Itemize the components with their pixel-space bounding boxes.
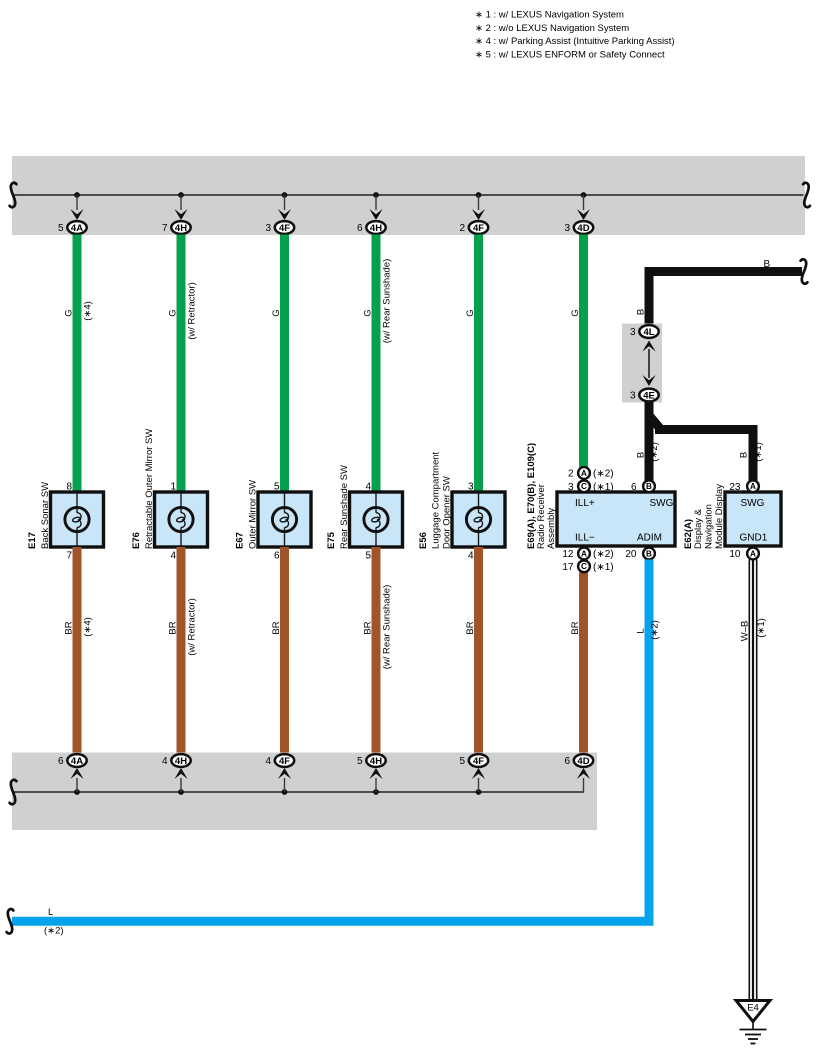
svg-text:4E: 4E [643,390,655,401]
switch internal wire E17 [76,492,78,547]
svg-text:(∗2): (∗2) [593,469,614,480]
wire stub from bus to connector 4H [375,195,377,210]
svg-text:3: 3 [630,391,636,402]
wire stub to connector 4H [375,778,377,792]
arrow into connector 4A [70,209,83,220]
svg-text:23: 23 [729,482,741,493]
arrow into connector 4A [70,768,83,779]
svg-text:5: 5 [274,482,280,493]
svg-text:BR: BR [63,621,74,634]
svg-text:C: C [581,562,587,571]
lamp symbol E67 [272,507,296,531]
svg-text:4: 4 [170,551,176,562]
connector 4E pin 3 [630,389,659,402]
switch internal wire E67 [284,492,286,547]
bottom bus riser to connector 4D [583,778,585,793]
arrow down into 4E [642,375,655,386]
svg-text:4: 4 [265,756,271,767]
svg-text:G: G [167,309,178,316]
svg-text:W–B: W–B [740,621,751,642]
svg-text:∗ 4 : w/ Parking Assist (Intui: ∗ 4 : w/ Parking Assist (Intuitive Parki… [475,36,675,47]
wire G (green) col 1 [73,235,82,493]
svg-text:8: 8 [66,482,72,493]
wire stub to connector 4A [76,778,78,792]
svg-text:BR: BR [570,621,581,634]
svg-text:7: 7 [66,551,72,562]
switch body E17 [51,492,104,547]
wire B (black) top horizontal [649,272,802,326]
svg-text:ILL−: ILL− [575,532,595,543]
svg-text:3: 3 [568,482,574,493]
svg-text:Outer Mirror SW: Outer Mirror SW [247,480,258,549]
display module body E62 [725,492,781,546]
wire B branch to display [650,417,753,482]
svg-text:BR: BR [271,621,282,634]
svg-text:B: B [764,259,771,270]
svg-text:E67: E67 [235,532,246,549]
wire stub from bus to connector 4D [583,195,585,210]
top bus break left [10,183,17,207]
arrow into connector 4H [369,209,382,220]
arrow into connector 4F [278,209,291,220]
svg-text:4F: 4F [473,756,484,767]
svg-text:6: 6 [357,223,363,234]
svg-text:(∗1): (∗1) [756,618,767,638]
lamp filament E67 [280,513,289,528]
top bus junction dot col 6 [581,192,587,198]
top bus break right [803,183,810,207]
svg-text:G: G [63,309,74,316]
lamp symbol E75 [364,507,388,531]
lamp filament E76 [176,513,185,528]
svg-text:B: B [636,452,647,458]
svg-text:4H: 4H [175,223,187,234]
pin 12 A (*2) of radio ILL- [562,548,613,561]
lamp filament E56 [474,513,483,528]
svg-text:6: 6 [564,756,570,767]
svg-text:4: 4 [162,756,168,767]
pin 10 A of display GND1 [729,548,759,561]
connector 4F pin 3 (top) [265,221,294,234]
svg-text:(∗2): (∗2) [650,620,661,640]
svg-text:(∗1): (∗1) [593,482,614,493]
svg-text:4H: 4H [175,756,187,767]
wire stub to connector 4F [284,778,286,792]
svg-text:E76: E76 [131,532,142,549]
connector 4A pin 6 (bottom) [58,754,87,767]
svg-text:Retractable Outer Mirror SW: Retractable Outer Mirror SW [144,429,155,549]
svg-text:E56: E56 [418,532,429,549]
svg-text:(∗1): (∗1) [753,442,764,462]
connector 4H pin 5 (bottom) [357,754,386,767]
bottom junction bus band [12,753,597,831]
wire G (green) col 4 [372,235,381,493]
wire G (green) col 2 [177,235,186,493]
bottom bus junction dot col 2 [178,789,184,795]
wire L (blue) from ADIM to left edge [12,560,649,922]
svg-text:5: 5 [459,756,465,767]
wire stub from bus to connector 4A [76,195,78,210]
lamp symbol E76 [169,507,193,531]
switch body E75 [350,492,403,547]
arrow into connector 4F [278,768,291,779]
svg-text:3: 3 [630,327,636,338]
pin 6 B of radio SWG [631,480,655,493]
connector 4D pin 3 (top) [564,221,593,234]
joint wire 4L-4E [648,349,650,378]
svg-text:(∗1): (∗1) [593,562,614,573]
wire stub from bus to connector 4F [284,195,286,210]
svg-text:20: 20 [625,549,637,560]
arrow into connector 4F [472,768,485,779]
svg-text:Rear Sunshade SW: Rear Sunshade SW [339,465,350,549]
svg-text:B: B [646,482,652,491]
connector 4D pin 6 (bottom) [564,754,593,767]
wire BR (brown) col 6 [579,573,588,755]
svg-text:4H: 4H [370,756,382,767]
connector 4H pin 4 (bottom) [162,754,191,767]
svg-text:5: 5 [58,223,64,234]
svg-text:Luggage Compartment: Luggage Compartment [431,451,442,549]
svg-text:6: 6 [58,756,64,767]
svg-text:(∗2): (∗2) [593,549,614,560]
svg-text:4: 4 [468,551,474,562]
svg-text:Assembly: Assembly [546,508,557,549]
svg-text:(∗2): (∗2) [44,926,64,937]
svg-text:(w/ Rear Sunshade): (w/ Rear Sunshade) [382,585,393,669]
top bus junction dot col 5 [476,192,482,198]
svg-text:3: 3 [265,223,271,234]
wire G (green) col 6 [579,235,588,468]
ground point E4 [736,1001,770,1022]
switch body E67 [258,492,311,547]
svg-text:B: B [636,309,647,315]
wire BR (brown) col 3 [280,547,289,754]
arrow into connector 4H [174,768,187,779]
svg-text:E17: E17 [27,532,38,549]
svg-text:(∗2): (∗2) [649,442,660,462]
wire stub to connector 4H [180,778,182,792]
pin 23 A of display SWG [729,480,759,493]
lamp symbol E56 [466,507,490,531]
svg-text:ILL+: ILL+ [575,498,595,509]
svg-text:B: B [739,452,750,458]
svg-text:C: C [581,482,587,491]
wire BR (brown) col 5 [474,547,483,754]
svg-text:6: 6 [274,551,280,562]
lamp symbol E17 [65,507,89,531]
arrow into connector 4F [472,209,485,220]
pin 17 C (*1) of radio ILL- [562,560,613,573]
bottom bus junction dot col 4 [373,789,379,795]
pin 3 C (*1) of radio ILL+ [568,480,614,493]
svg-text:∗ 5 : w/ LEXUS ENFORM or Safet: ∗ 5 : w/ LEXUS ENFORM or Safety Connect [475,49,665,60]
connector 4L pin 3 [630,325,659,338]
svg-text:Module Display: Module Display [714,484,725,549]
svg-text:E4: E4 [747,1003,759,1014]
svg-text:(w/ Retractor): (w/ Retractor) [187,598,198,656]
wire G (green) col 5 [474,235,483,493]
svg-text:G: G [570,309,581,316]
wire stub from bus to connector 4F [478,195,480,210]
pin 20 B of radio ADIM [625,548,655,561]
svg-text:E75: E75 [326,531,337,549]
svg-text:A: A [750,549,756,558]
bottom bus wire [13,791,584,793]
svg-text:4F: 4F [279,223,290,234]
top bus junction dot col 2 [178,192,184,198]
svg-text:L: L [636,628,647,633]
svg-text:(∗4): (∗4) [83,617,94,637]
svg-text:SWG: SWG [741,498,765,509]
switch internal wire E76 [180,492,182,547]
arrow into connector 4H [174,209,187,220]
svg-text:B: B [646,549,652,558]
svg-text:7: 7 [162,223,168,234]
svg-text:1: 1 [170,482,176,493]
switch body E76 [155,492,208,547]
connector 4H pin 7 (top) [162,221,191,234]
svg-text:4F: 4F [473,223,484,234]
connector 4A pin 5 (top) [58,221,87,234]
top bus wire [13,194,804,196]
svg-text:A: A [581,549,587,558]
arrow into connector 4H [369,768,382,779]
connector 4F pin 2 (top) [459,221,488,234]
pin 2 A (*2) of radio ILL+ [568,467,614,480]
svg-text:3: 3 [564,223,570,234]
svg-text:2: 2 [459,223,465,234]
top bus junction dot col 4 [373,192,379,198]
svg-text:∗ 2 : w/o LEXUS Navigation Sys: ∗ 2 : w/o LEXUS Navigation System [475,23,629,34]
svg-text:ADIM: ADIM [637,532,662,543]
wire B break right [801,259,808,283]
bottom bus break left [10,780,17,804]
svg-text:5: 5 [357,756,363,767]
svg-text:(w/ Rear Sunshade): (w/ Rear Sunshade) [382,259,393,343]
svg-text:A: A [750,482,756,491]
svg-text:G: G [465,309,476,316]
svg-text:(∗4): (∗4) [83,301,94,321]
top junction bus band [12,156,805,235]
wire BR (brown) col 4 [372,547,381,754]
top bus junction dot col 1 [74,192,80,198]
radio receiver body E69 [557,492,675,546]
wire G (green) col 3 [280,235,289,493]
svg-text:3: 3 [468,482,474,493]
svg-text:SWG: SWG [650,498,674,509]
wire BR (brown) col 2 [177,547,186,754]
svg-text:BR: BR [167,621,178,634]
connector 4F pin 5 (bottom) [459,754,488,767]
switch body E56 [452,492,505,547]
arrow into connector 4D [577,209,590,220]
wire L break left [7,909,14,933]
svg-text:BR: BR [362,621,373,634]
svg-text:4D: 4D [577,756,589,767]
svg-text:5: 5 [365,551,371,562]
connector 4F pin 4 (bottom) [265,754,294,767]
wire stub to connector 4F [478,778,480,792]
svg-text:4L: 4L [643,327,654,338]
ground earth symbol [740,1022,767,1044]
svg-text:4A: 4A [71,223,83,234]
svg-text:BR: BR [465,621,476,634]
connector 4H pin 6 (top) [357,221,386,234]
wire B (black) from 4E to radio SWG [645,402,654,481]
svg-text:Door Opener SW: Door Opener SW [441,476,452,549]
bottom bus junction dot col 3 [282,789,288,795]
arrow into connector 4D [577,768,590,779]
svg-text:GND1: GND1 [740,532,768,543]
wire W-B from GND1 to ground E4 [749,560,756,1000]
wire BR (brown) col 1 [73,547,82,754]
svg-text:L: L [48,907,53,918]
svg-text:4H: 4H [370,223,382,234]
svg-text:Back Sonar SW: Back Sonar SW [40,482,51,549]
svg-text:12: 12 [562,549,574,560]
arrow up into 4L [642,341,655,352]
lamp filament E17 [72,513,81,528]
svg-text:4A: 4A [71,756,83,767]
svg-text:(w/ Retractor): (w/ Retractor) [187,282,198,340]
lamp filament E75 [371,513,380,528]
switch internal wire E75 [375,492,377,547]
svg-text:6: 6 [631,482,637,493]
svg-text:4D: 4D [577,223,589,234]
in-line connector block 4L/4E [622,324,662,403]
switch internal wire E56 [478,492,480,547]
bottom bus junction dot col 1 [74,789,80,795]
wire stub from bus to connector 4H [180,195,182,210]
svg-text:G: G [271,309,282,316]
top bus junction dot col 3 [282,192,288,198]
svg-text:G: G [362,309,373,316]
svg-text:10: 10 [729,549,741,560]
svg-text:2: 2 [568,469,574,480]
bottom bus junction dot col 5 [476,789,482,795]
svg-text:A: A [581,469,587,478]
svg-text:∗ 1 : w/ LEXUS Navigation Syst: ∗ 1 : w/ LEXUS Navigation System [475,10,624,21]
svg-text:4F: 4F [279,756,290,767]
svg-text:17: 17 [562,562,574,573]
svg-text:4: 4 [365,482,371,493]
